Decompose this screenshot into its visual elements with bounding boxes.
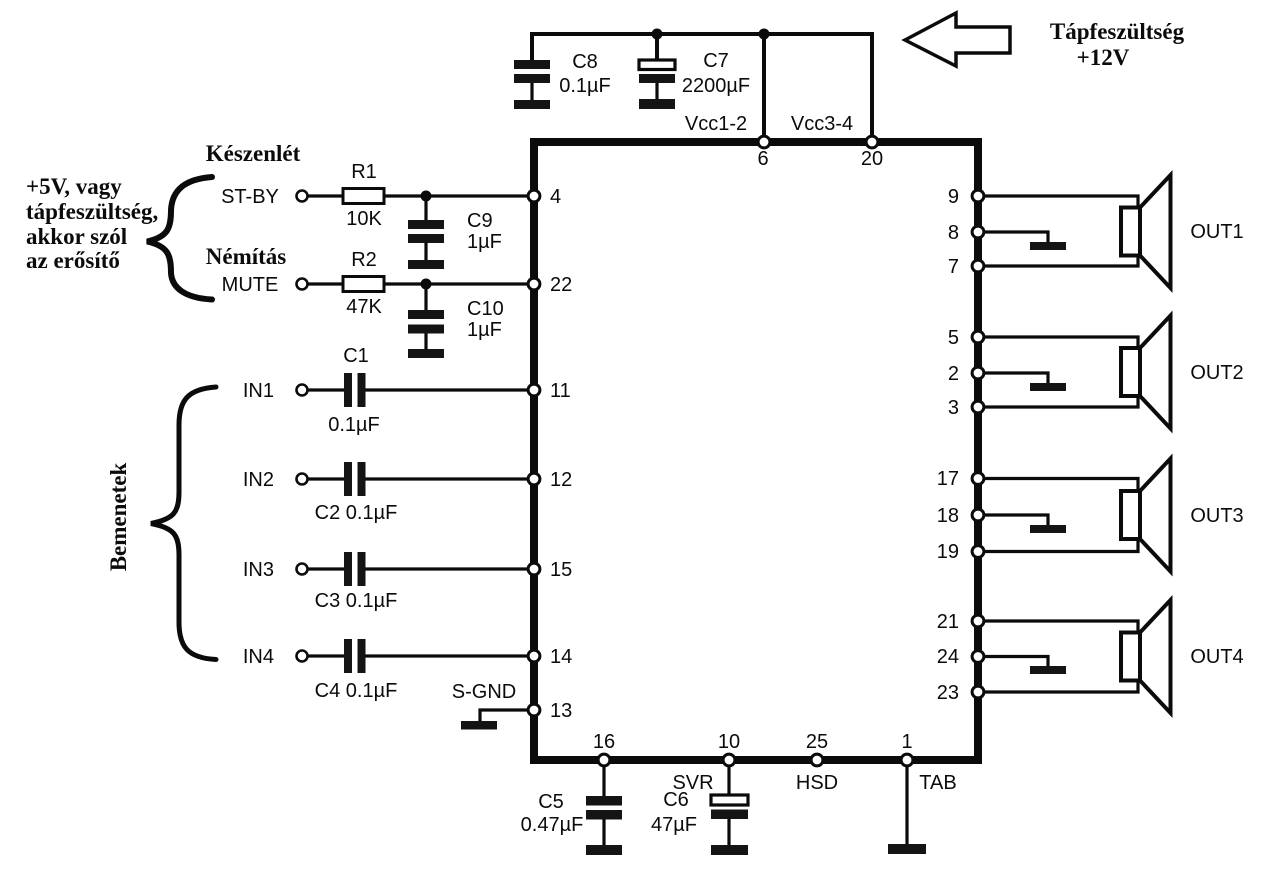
- svg-text:MUTE: MUTE: [222, 274, 279, 296]
- label +5V note: [26, 174, 158, 273]
- wire pin8 to ground: [985, 232, 1048, 242]
- wire pin23 to speaker4: [985, 681, 1138, 692]
- svg-text:19: 19: [937, 541, 959, 563]
- wire R1 to pin 4: [384, 194, 527, 197]
- svg-text:12: 12: [550, 469, 572, 491]
- node junction bus/pin6: [759, 29, 770, 40]
- svg-text:7: 7: [948, 256, 959, 278]
- ground C9: [408, 260, 444, 269]
- pin 21: [937, 611, 984, 633]
- svg-text:Némítás: Némítás: [206, 244, 287, 269]
- capacitor C9: [408, 196, 444, 260]
- label C9 value: [467, 210, 502, 253]
- svg-text:C5: C5: [538, 791, 564, 813]
- svg-text:1: 1: [901, 731, 912, 753]
- svg-text:47µF: 47µF: [651, 814, 697, 836]
- pin 23: [937, 682, 984, 704]
- svg-text:Bemenetek: Bemenetek: [106, 463, 131, 572]
- label C10 value: [467, 298, 504, 341]
- ground TAB: [888, 844, 926, 854]
- svg-text:24: 24: [937, 646, 959, 668]
- svg-text:22: 22: [550, 274, 572, 296]
- svg-text:Vcc1-2: Vcc1-2: [685, 113, 747, 135]
- pin 5: [948, 327, 984, 349]
- wire pin18 to ground: [985, 515, 1048, 525]
- wire R2 to pin 22: [384, 282, 527, 285]
- wire pin9 to speaker1: [985, 196, 1138, 206]
- svg-text:23: 23: [937, 682, 959, 704]
- terminal IN1: [297, 385, 308, 396]
- ground OUT2: [1030, 383, 1066, 391]
- ground C10: [408, 349, 444, 358]
- pin 13: [528, 700, 572, 722]
- label C8 value: [559, 51, 611, 97]
- brace stby/mute: [147, 177, 212, 300]
- pin 3: [948, 397, 984, 419]
- speaker OUT3: [1121, 459, 1171, 572]
- capacitor C2: [308, 462, 397, 524]
- node junction R1/C9: [421, 191, 432, 202]
- svg-text:R2: R2: [351, 249, 377, 271]
- svg-text:IN3: IN3: [243, 559, 274, 581]
- capacitor C7: [639, 60, 675, 99]
- pin 14: [528, 646, 572, 668]
- ground OUT4: [1030, 666, 1066, 674]
- svg-text:C4 0.1µF: C4 0.1µF: [315, 680, 398, 702]
- pin 18: [937, 505, 984, 527]
- pin 15: [528, 559, 572, 581]
- svg-text:C1: C1: [343, 345, 369, 367]
- ground S-GND: [461, 721, 497, 730]
- pin 24: [937, 646, 984, 668]
- terminal ST-BY: [297, 191, 308, 202]
- wire pin19 to speaker3: [985, 540, 1138, 552]
- wire pin2 to ground: [985, 373, 1048, 383]
- wire pin24 to ground: [985, 657, 1048, 667]
- terminal IN4: [297, 651, 308, 662]
- svg-text:IN4: IN4: [243, 646, 274, 668]
- svg-text:IN2: IN2: [243, 469, 274, 491]
- pin 4: [528, 186, 561, 208]
- label Tapfeszultseg +12V: [1050, 19, 1185, 70]
- svg-text:0.47µF: 0.47µF: [521, 814, 584, 836]
- IC body U1 (quad amplifier): [534, 142, 978, 760]
- svg-text:4: 4: [550, 186, 561, 208]
- svg-text:5: 5: [948, 327, 959, 349]
- svg-text:OUT2: OUT2: [1190, 362, 1243, 384]
- capacitor C3: [308, 552, 397, 612]
- brace inputs: [151, 387, 216, 660]
- pin 25: [806, 731, 828, 766]
- wire pin7 to speaker1: [985, 256, 1138, 266]
- capacitor C1: [308, 373, 380, 436]
- wire C1 to pin 11: [366, 388, 528, 391]
- svg-text:S-GND: S-GND: [452, 681, 516, 703]
- capacitor C4: [308, 639, 397, 702]
- svg-text:OUT1: OUT1: [1190, 221, 1243, 243]
- capacitor C6: [711, 767, 748, 845]
- wire pin3 to speaker2: [985, 397, 1138, 407]
- pin 20: [861, 136, 883, 170]
- svg-text:Tápfeszültség: Tápfeszültség: [1050, 19, 1185, 44]
- wire C3 to pin 15: [366, 567, 528, 570]
- pin 11: [528, 380, 571, 402]
- wire pin17 to speaker3: [985, 479, 1138, 491]
- wire pin5 to speaker2: [985, 337, 1138, 347]
- wire C4 to pin 14: [366, 654, 528, 657]
- svg-text:3: 3: [948, 397, 959, 419]
- resistor R1: [343, 161, 384, 230]
- svg-text:Vcc3-4: Vcc3-4: [791, 113, 853, 135]
- svg-text:11: 11: [550, 380, 571, 402]
- svg-text:47K: 47K: [346, 296, 382, 318]
- pin 12: [528, 469, 572, 491]
- pin 1: [901, 731, 913, 766]
- capacitor C8: [514, 60, 550, 100]
- wire C2 to pin 12: [366, 477, 528, 480]
- svg-text:1µF: 1µF: [467, 231, 502, 253]
- svg-text:Készenlét: Készenlét: [206, 141, 301, 166]
- svg-text:21: 21: [937, 611, 959, 633]
- svg-text:17: 17: [937, 468, 959, 490]
- svg-text:C3 0.1µF: C3 0.1µF: [315, 590, 398, 612]
- svg-text:R1: R1: [351, 161, 377, 183]
- label C7 value: [682, 50, 750, 97]
- wire TAB to ground: [905, 767, 908, 844]
- svg-text:18: 18: [937, 505, 959, 527]
- pin 17: [937, 468, 984, 490]
- svg-text:HSD: HSD: [796, 772, 838, 794]
- svg-text:C7: C7: [703, 50, 729, 72]
- pin 16: [593, 731, 615, 766]
- node junction R2/C10: [421, 279, 432, 290]
- svg-text:10K: 10K: [346, 208, 382, 230]
- ground C6: [711, 845, 748, 855]
- pin 7: [948, 256, 984, 278]
- pin 22: [528, 274, 572, 296]
- svg-text:OUT3: OUT3: [1190, 505, 1243, 527]
- svg-text:C9: C9: [467, 210, 493, 232]
- svg-text:6: 6: [757, 148, 768, 170]
- speaker OUT1: [1121, 175, 1171, 288]
- speaker OUT4: [1121, 600, 1171, 713]
- svg-text:0.1µF: 0.1µF: [559, 75, 611, 97]
- svg-text:OUT4: OUT4: [1190, 646, 1243, 668]
- ground OUT3: [1030, 525, 1066, 533]
- svg-text:2: 2: [948, 363, 959, 385]
- svg-text:TAB: TAB: [919, 772, 956, 794]
- svg-text:8: 8: [948, 222, 959, 244]
- svg-text:+5V, vagy: +5V, vagy: [26, 174, 122, 199]
- svg-text:C6: C6: [663, 789, 689, 811]
- wire pin21 to speaker4: [985, 621, 1138, 632]
- pin 6: [757, 136, 769, 170]
- wire C7 riser: [655, 34, 659, 60]
- speaker OUT2: [1121, 316, 1171, 429]
- svg-text:25: 25: [806, 731, 828, 753]
- node junction bus/C7: [652, 29, 663, 40]
- label C6 value: [651, 789, 697, 836]
- svg-text:akkor szól: akkor szól: [26, 224, 127, 249]
- label C5 value: [521, 791, 584, 836]
- svg-text:C10: C10: [467, 298, 504, 320]
- capacitor C5: [586, 767, 622, 845]
- svg-text:9: 9: [948, 186, 959, 208]
- resistor R2: [343, 249, 384, 318]
- svg-text:20: 20: [861, 148, 883, 170]
- svg-text:2200µF: 2200µF: [682, 75, 750, 97]
- ground OUT1: [1030, 242, 1066, 250]
- wire MUTE to R2: [308, 282, 343, 285]
- svg-text:C8: C8: [572, 51, 598, 73]
- svg-text:16: 16: [593, 731, 615, 753]
- wire pin6 riser: [762, 34, 766, 142]
- svg-text:1µF: 1µF: [467, 319, 502, 341]
- terminal MUTE: [297, 279, 308, 290]
- svg-text:15: 15: [550, 559, 572, 581]
- pin 10: [718, 731, 740, 766]
- wire ST-BY to R1: [308, 194, 343, 197]
- terminal IN2: [297, 474, 308, 485]
- svg-text:+12V: +12V: [1077, 45, 1130, 70]
- pin 9: [948, 186, 984, 208]
- ground C8: [514, 100, 550, 109]
- wire pin13 to ground: [480, 710, 527, 721]
- pin 19: [937, 541, 984, 563]
- pin 2: [948, 363, 984, 385]
- capacitor C10: [408, 284, 444, 349]
- svg-text:14: 14: [550, 646, 572, 668]
- svg-text:13: 13: [550, 700, 572, 722]
- svg-text:C2 0.1µF: C2 0.1µF: [315, 502, 398, 524]
- svg-text:0.1µF: 0.1µF: [328, 414, 380, 436]
- svg-text:IN1: IN1: [243, 380, 274, 402]
- wire top supply bus: [532, 34, 872, 142]
- svg-text:10: 10: [718, 731, 740, 753]
- pin 8: [948, 222, 984, 244]
- ground C5: [586, 845, 622, 855]
- svg-text:az erősítő: az erősítő: [26, 248, 120, 273]
- svg-text:tápfeszültség,: tápfeszültség,: [26, 199, 158, 224]
- supply arrow: [905, 13, 1010, 66]
- terminal IN3: [297, 564, 308, 575]
- ground C7: [639, 99, 675, 109]
- svg-text:ST-BY: ST-BY: [221, 186, 279, 208]
